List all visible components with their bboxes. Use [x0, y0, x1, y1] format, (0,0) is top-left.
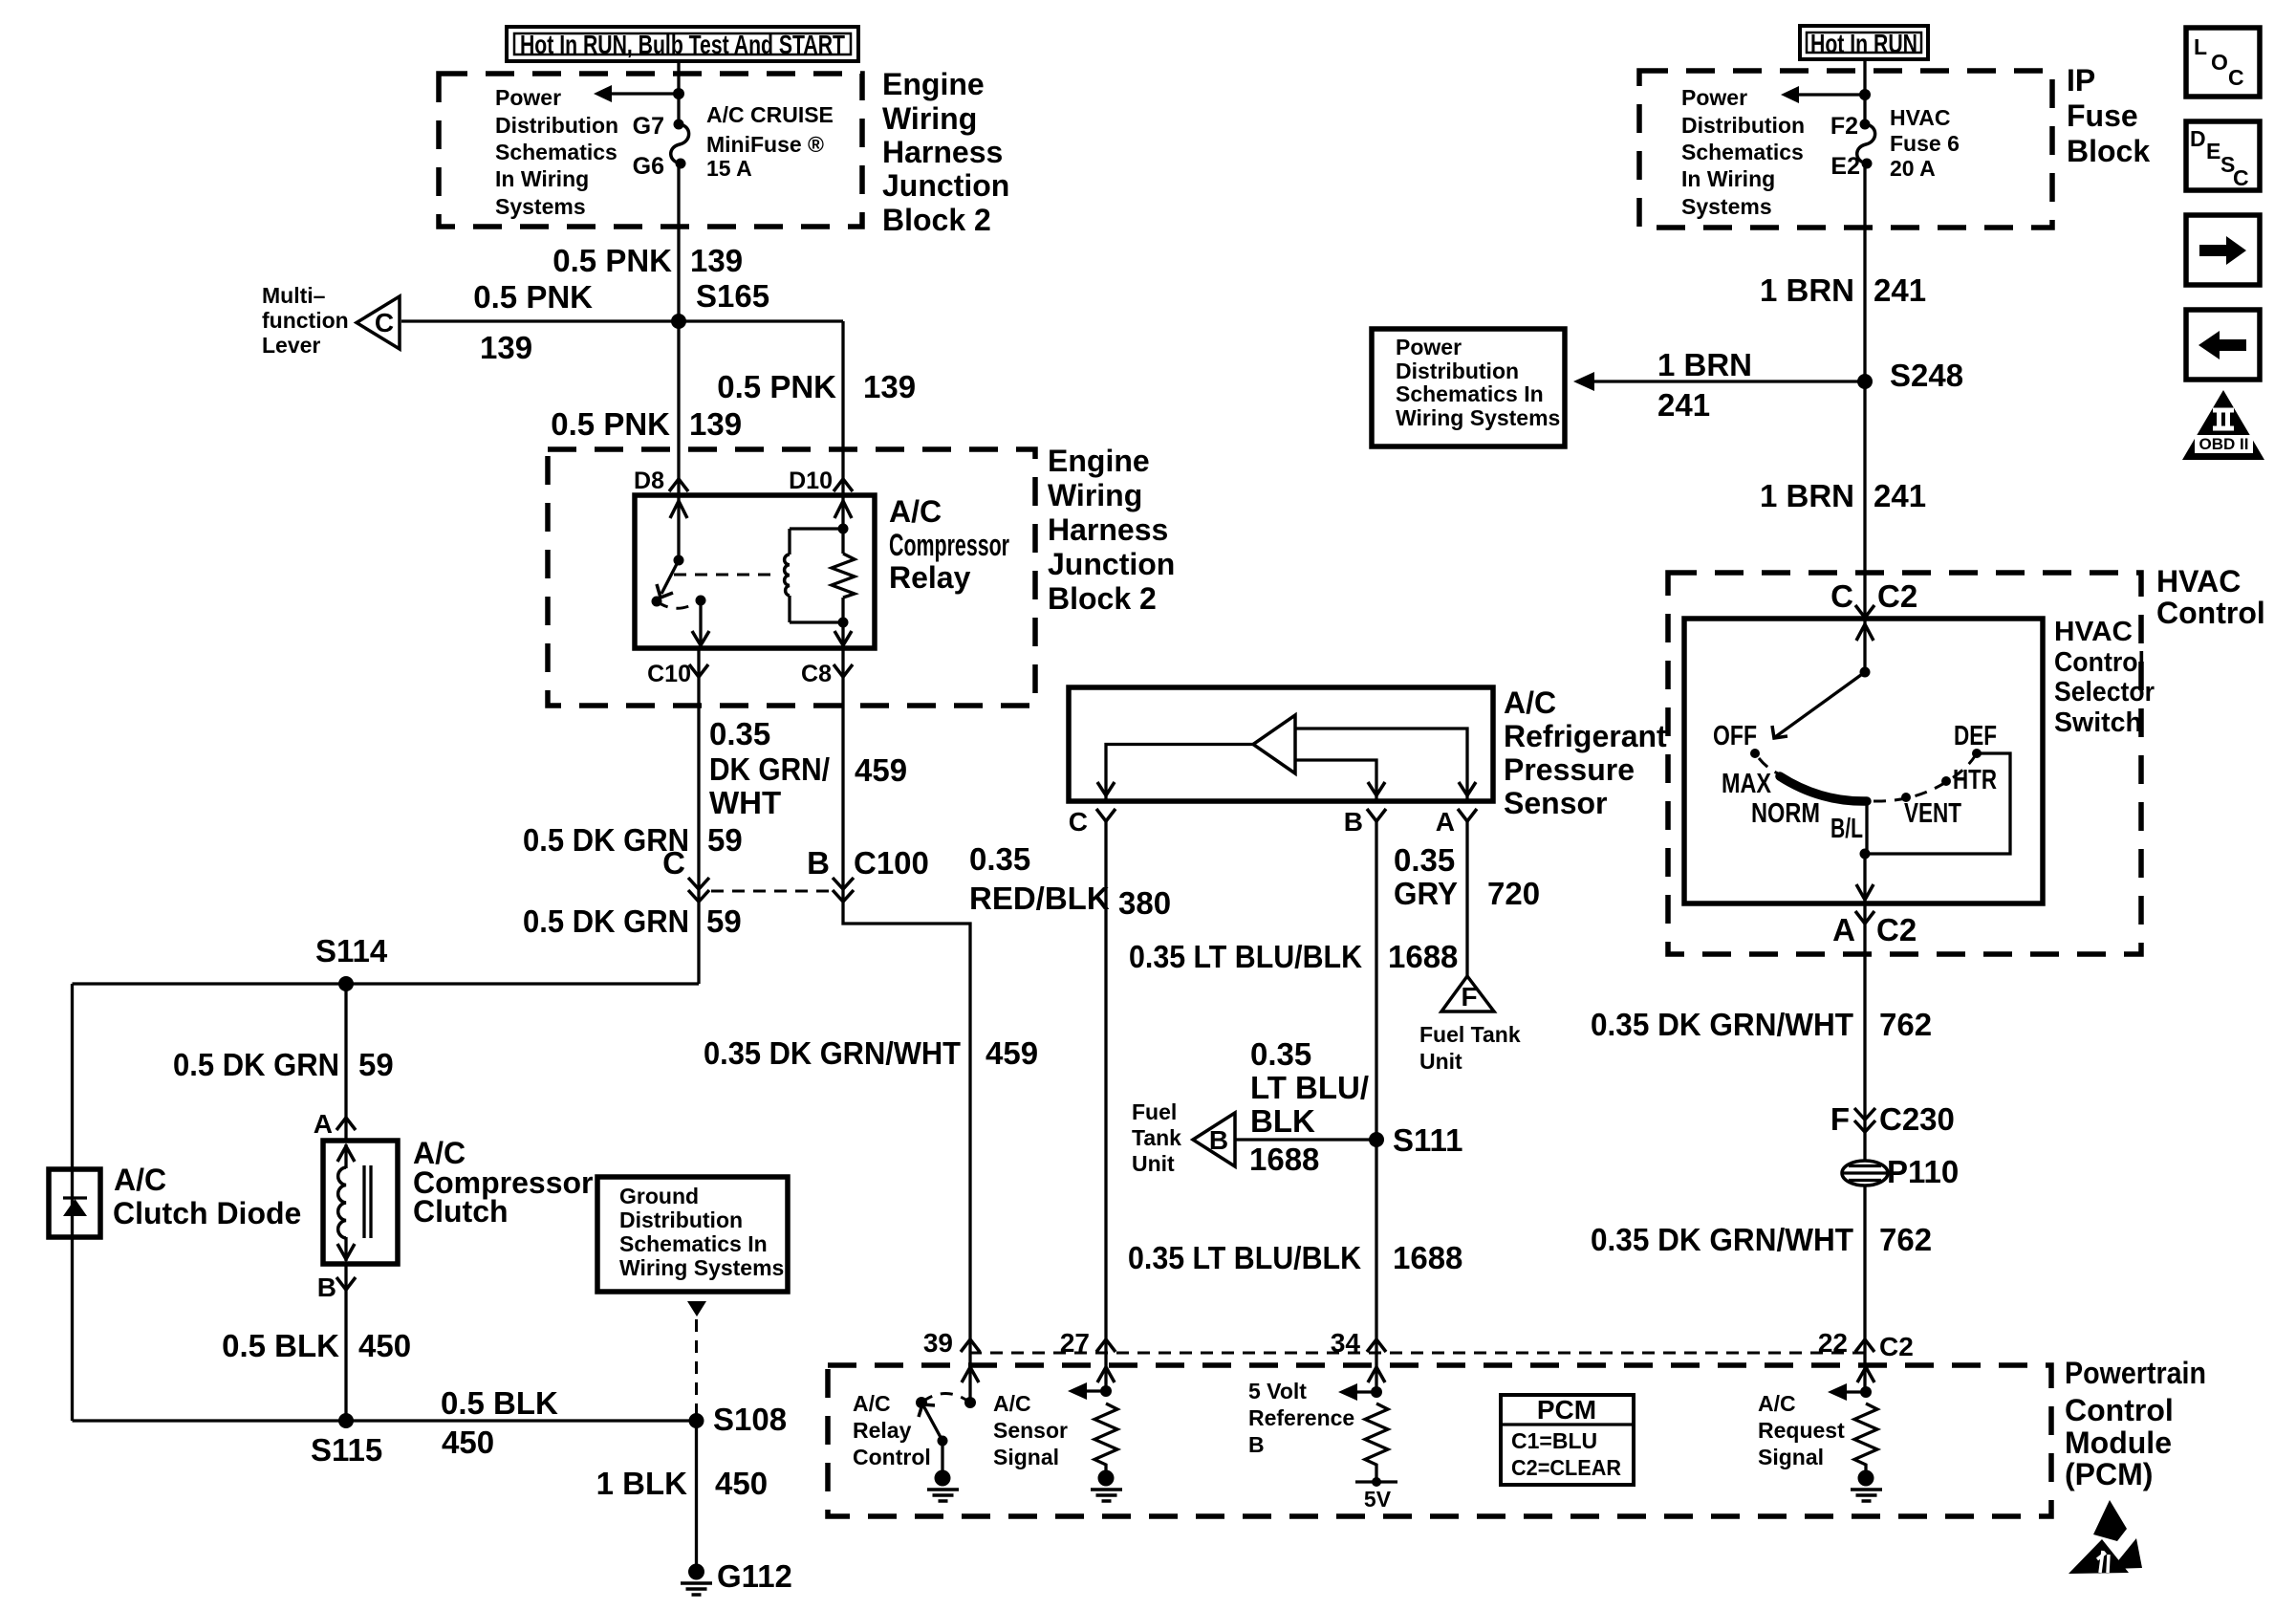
svg-text:In Wiring: In Wiring [495, 166, 589, 191]
svg-text:A/C: A/C [853, 1391, 891, 1416]
svg-text:HVAC: HVAC [2156, 564, 2241, 598]
svg-text:Block: Block [2067, 134, 2150, 168]
svg-text:1688: 1688 [1249, 1142, 1319, 1177]
svg-text:Distribution: Distribution [619, 1207, 743, 1232]
svg-text:Schematics In: Schematics In [1396, 381, 1544, 406]
svg-text:59: 59 [358, 1047, 394, 1082]
svg-text:Systems: Systems [1681, 194, 1772, 219]
svg-text:B: B [807, 845, 830, 881]
5 Volt Reference branch [1338, 1367, 1397, 1512]
svg-text:E2: E2 [1830, 153, 1860, 180]
svg-text:A/C: A/C [993, 1391, 1031, 1416]
node S111 [1369, 1132, 1384, 1147]
svg-text:Systems: Systems [495, 194, 586, 219]
svg-text:A/C: A/C [1758, 1391, 1796, 1416]
svg-text:F2: F2 [1830, 113, 1858, 140]
connector F: Fuel Tank Unit [1441, 976, 1494, 1012]
svg-text:1 BRN: 1 BRN [1760, 478, 1854, 513]
svg-text:762: 762 [1879, 1222, 1932, 1257]
svg-text:C2=CLEAR: C2=CLEAR [1511, 1455, 1621, 1480]
svg-text:Hot In RUN, Bulb Test And STAR: Hot In RUN, Bulb Test And START [520, 30, 845, 59]
svg-text:F: F [1830, 1101, 1850, 1137]
svg-text:Hot In RUN: Hot In RUN [1810, 29, 1917, 58]
svg-text:20 A: 20 A [1890, 156, 1936, 181]
connector B: Fuel Tank Unit [1193, 1113, 1235, 1166]
svg-text:450: 450 [715, 1466, 768, 1501]
svg-text:0.35: 0.35 [709, 716, 770, 751]
dashed box: Engine Wiring Harness Junction Block 2 (relay) [548, 449, 1035, 706]
wire: feed from Hot In RUN [1863, 59, 1866, 122]
svg-text:B: B [1248, 1432, 1265, 1457]
svg-text:Multi–: Multi– [262, 283, 326, 308]
svg-text:139: 139 [689, 406, 742, 442]
svg-text:E: E [2206, 139, 2220, 163]
svg-text:0.5 DK GRN: 0.5 DK GRN [523, 903, 689, 939]
svg-text:Wiring: Wiring [1048, 478, 1142, 512]
connector C100 dashed mate line [711, 890, 831, 893]
svg-text:S114: S114 [315, 933, 388, 968]
svg-text:Selector: Selector [2054, 677, 2155, 707]
svg-text:C230: C230 [1879, 1101, 1955, 1137]
Ground Distribution box [597, 1177, 788, 1292]
selector dashed arcs [1759, 758, 1778, 773]
svg-text:PCM: PCM [1537, 1395, 1596, 1425]
svg-text:HVAC: HVAC [1890, 105, 1950, 130]
svg-text:Sensor: Sensor [1504, 786, 1607, 820]
node S115 [338, 1413, 354, 1428]
svg-text:D10: D10 [789, 468, 833, 494]
svg-text:Distribution: Distribution [495, 113, 618, 138]
icon: arrow right [2186, 215, 2260, 285]
icon: ESD triangle [2069, 1500, 2142, 1574]
svg-text:Lever: Lever [262, 333, 320, 358]
svg-text:L: L [2194, 34, 2207, 59]
svg-text:241: 241 [1874, 478, 1926, 513]
A/C Compressor Clutch box [323, 1141, 398, 1264]
svg-text:0.35 DK GRN/WHT: 0.35 DK GRN/WHT [1591, 1222, 1853, 1257]
svg-text:0.35: 0.35 [1250, 1036, 1311, 1072]
A/C Clutch Diode box [49, 1169, 100, 1237]
connector C230 pin F [1830, 1101, 1955, 1137]
svg-text:Unit: Unit [1132, 1151, 1175, 1176]
svg-text:Fuse: Fuse [2067, 98, 2138, 133]
svg-text:Control: Control [2054, 647, 2145, 678]
svg-text:IP: IP [2067, 63, 2095, 98]
svg-text:G6: G6 [633, 153, 664, 180]
A/C Request Signal branch [1828, 1367, 1882, 1501]
svg-text:C2: C2 [1877, 578, 1917, 614]
svg-text:S165: S165 [696, 278, 769, 314]
svg-text:0.5 DK GRN: 0.5 DK GRN [173, 1047, 339, 1082]
svg-text:Harness: Harness [1048, 512, 1168, 547]
wire: diode branch down [71, 984, 74, 1421]
icon: arrow left [2186, 310, 2260, 380]
svg-text:Schematics: Schematics [495, 140, 617, 164]
node S114 [338, 976, 354, 991]
node S108 [689, 1413, 704, 1428]
svg-text:NORM: NORM [1751, 798, 1820, 829]
svg-text:Distribution: Distribution [1396, 359, 1519, 383]
svg-text:G7: G7 [633, 113, 664, 140]
svg-text:Clutch: Clutch [413, 1194, 509, 1229]
svg-text:59: 59 [707, 822, 743, 858]
wire: bottom ground run S115 to S108 [73, 1419, 697, 1422]
svg-text:Control: Control [853, 1445, 931, 1469]
svg-text:C: C [2228, 65, 2244, 90]
wire: sensor B to pin 34 [1375, 821, 1377, 1392]
note: Power Distribution Schematics In Wiring Systems (IP) [1681, 85, 1805, 219]
svg-text:Power: Power [1681, 85, 1747, 110]
svg-text:OBD II: OBD II [2199, 435, 2249, 453]
HVAC Control Selector Switch box [1684, 619, 2043, 903]
svg-text:Relay: Relay [853, 1418, 912, 1443]
svg-text:DK GRN/: DK GRN/ [709, 751, 830, 787]
svg-text:Request: Request [1758, 1418, 1845, 1443]
svg-text:Engine: Engine [1048, 444, 1150, 478]
connector C100 pin B [807, 845, 929, 902]
svg-text:C: C [662, 845, 685, 881]
svg-text:380: 380 [1118, 885, 1171, 921]
svg-text:27: 27 [1060, 1328, 1090, 1358]
svg-text:Unit: Unit [1419, 1049, 1462, 1074]
svg-text:P110: P110 [1887, 1154, 1959, 1189]
svg-text:139: 139 [863, 369, 916, 404]
svg-text:Clutch Diode: Clutch Diode [113, 1196, 301, 1230]
svg-text:720: 720 [1487, 876, 1540, 911]
svg-text:In Wiring: In Wiring [1681, 166, 1775, 191]
fuse: HVAC Fuse 6 20 A [1857, 120, 1875, 169]
label box: Hot In RUN, Bulb Test And START [507, 27, 858, 61]
wire: 1 BRN 241 down to HVAC control [1863, 163, 1866, 619]
svg-text:A: A [1436, 807, 1455, 837]
svg-text:C1=BLU: C1=BLU [1511, 1428, 1597, 1453]
wire: S108 to G112 [695, 1421, 698, 1564]
svg-text:450: 450 [442, 1425, 494, 1460]
svg-text:OFF: OFF [1713, 721, 1757, 751]
grommet P110 [1841, 1154, 1959, 1189]
label: A/C CRUISE MiniFuse 15 A [706, 102, 834, 181]
svg-text:VENT: VENT [1904, 798, 1961, 829]
relay internal dashed link [674, 574, 772, 577]
svg-text:Powertrain: Powertrain [2065, 1356, 2206, 1390]
svg-text:Control: Control [2065, 1393, 2174, 1427]
dashed box: HVAC Control [1668, 573, 2141, 954]
svg-text:Pressure: Pressure [1504, 752, 1635, 787]
svg-text:Engine: Engine [882, 67, 985, 101]
svg-text:5V: 5V [1364, 1487, 1392, 1512]
svg-text:59: 59 [706, 903, 742, 939]
connector C: Multi-function Lever [357, 296, 400, 349]
svg-text:139: 139 [480, 330, 532, 365]
svg-text:LT BLU/: LT BLU/ [1250, 1070, 1369, 1105]
svg-text:0.5 PNK: 0.5 PNK [717, 369, 836, 404]
arrow to power distribution (IP) [1781, 86, 1871, 103]
svg-text:0.5 BLK: 0.5 BLK [222, 1328, 339, 1363]
label box: Hot In RUN [1800, 26, 1928, 59]
svg-text:F: F [1461, 982, 1477, 1012]
svg-text:Module: Module [2065, 1425, 2172, 1460]
note: Power Distribution Schematics In Wiring Systems [495, 85, 618, 219]
svg-text:Schematics In: Schematics In [619, 1231, 768, 1256]
svg-text:0.35 LT BLU/BLK: 0.35 LT BLU/BLK [1128, 1240, 1361, 1275]
relay box: A/C Compressor Relay [635, 495, 875, 648]
dashed box: IP Fuse Block [1639, 71, 2052, 228]
svg-text:Wiring: Wiring [882, 101, 977, 136]
arrow: S248 to power distribution [1573, 372, 1865, 391]
svg-text:1 BRN: 1 BRN [1657, 347, 1752, 382]
dashed box: Powertrain Control Module (PCM) [828, 1365, 2051, 1516]
wire: C8 to C100 to pin 39 [843, 648, 970, 1403]
svg-text:HTR: HTR [1953, 765, 1997, 795]
ground feed triangle [687, 1301, 706, 1316]
svg-text:C: C [1069, 807, 1088, 837]
svg-text:0.5 PNK: 0.5 PNK [551, 406, 670, 442]
svg-text:Tank: Tank [1132, 1125, 1181, 1150]
svg-text:0.35: 0.35 [1394, 842, 1455, 878]
svg-text:A: A [314, 1109, 333, 1139]
svg-text:Fuel Tank: Fuel Tank [1419, 1022, 1521, 1047]
svg-text:Wiring Systems: Wiring Systems [619, 1255, 784, 1280]
svg-text:A/C: A/C [889, 494, 942, 529]
svg-text:Junction: Junction [882, 168, 1009, 203]
node S165 [671, 314, 686, 329]
svg-text:459: 459 [855, 752, 907, 788]
svg-text:1 BRN: 1 BRN [1760, 272, 1854, 308]
dashed box: Engine Wiring Harness Junction Block 2 (fuse block) [439, 74, 862, 227]
svg-text:Distribution: Distribution [1681, 113, 1805, 138]
svg-text:C2: C2 [1876, 912, 1917, 947]
svg-text:0.35 LT BLU/BLK: 0.35 LT BLU/BLK [1129, 939, 1362, 974]
svg-text:Block 2: Block 2 [1048, 581, 1157, 616]
svg-text:762: 762 [1879, 1007, 1932, 1042]
svg-text:D8: D8 [634, 468, 664, 494]
svg-text:Switch: Switch [2054, 707, 2142, 738]
wire: 0.5 PNK 139 fuse to S165 and down to relay [677, 163, 680, 560]
svg-text:S108: S108 [713, 1402, 787, 1437]
svg-text:Compressor: Compressor [889, 528, 1009, 562]
svg-text:C8: C8 [801, 661, 832, 687]
PCM connector dashed line [969, 1352, 1865, 1355]
wire: sensor C to pin 27 [1104, 821, 1107, 1391]
Power Distribution box (S248) [1372, 329, 1565, 446]
svg-text:1688: 1688 [1388, 939, 1458, 974]
svg-text:0.35 DK GRN/WHT: 0.35 DK GRN/WHT [704, 1035, 961, 1071]
wire: sensor A to fuel tank unit [1465, 821, 1468, 976]
svg-text:S248: S248 [1890, 358, 1963, 393]
pin A C2 (HVAC) [1855, 911, 1874, 924]
svg-text:459: 459 [986, 1035, 1038, 1071]
svg-text:D: D [2190, 126, 2206, 151]
svg-text:0.5 BLK: 0.5 BLK [441, 1385, 558, 1421]
A/C Relay Control switch [916, 1367, 979, 1501]
svg-text:A: A [1832, 912, 1855, 947]
svg-text:Schematics: Schematics [1681, 140, 1804, 164]
svg-text:Signal: Signal [993, 1445, 1059, 1469]
fuse F1: A/C CRUISE MiniFuse 15 A [671, 120, 689, 169]
svg-text:22: 22 [1818, 1328, 1848, 1358]
svg-text:A/C: A/C [114, 1163, 166, 1197]
selector switch arm [1772, 619, 1874, 738]
svg-text:241: 241 [1657, 387, 1710, 423]
svg-text:RED/BLK: RED/BLK [969, 881, 1110, 916]
node S248 [1857, 374, 1873, 389]
svg-text:function: function [262, 308, 349, 333]
svg-text:Control: Control [2156, 596, 2265, 630]
svg-text:(PCM): (PCM) [2065, 1457, 2153, 1491]
svg-text:139: 139 [690, 243, 743, 278]
svg-text:WHT: WHT [709, 785, 781, 820]
wire: S165 branches [401, 321, 843, 495]
svg-text:Fuse 6: Fuse 6 [1890, 131, 1960, 156]
svg-text:34: 34 [1331, 1328, 1361, 1358]
connector C100 pin C [662, 845, 709, 902]
arrow to power distribution [594, 85, 684, 102]
relay resistor [832, 495, 855, 648]
svg-text:Junction: Junction [1048, 547, 1175, 581]
wire: clutch branch down [344, 984, 347, 1421]
icon: DESC [2186, 121, 2260, 190]
selector contact arc [1780, 776, 1867, 801]
svg-text:241: 241 [1874, 272, 1926, 308]
svg-text:B: B [317, 1273, 336, 1302]
svg-text:Reference: Reference [1248, 1405, 1354, 1430]
svg-text:0.35 DK GRN/WHT: 0.35 DK GRN/WHT [1591, 1007, 1853, 1042]
svg-text:39: 39 [923, 1328, 953, 1358]
relay coil [785, 524, 849, 628]
svg-text:GRY: GRY [1394, 876, 1458, 911]
svg-text:450: 450 [358, 1328, 411, 1363]
icon: OBD II [2182, 390, 2264, 460]
svg-text:MAX: MAX [1722, 769, 1772, 799]
svg-text:C100: C100 [854, 845, 929, 881]
svg-text:Wiring Systems: Wiring Systems [1396, 405, 1560, 430]
svg-text:A/C: A/C [1504, 685, 1556, 720]
svg-text:Block 2: Block 2 [882, 203, 991, 237]
svg-text:S115: S115 [311, 1432, 382, 1468]
icon: LOC [2186, 28, 2260, 97]
svg-text:0.35: 0.35 [969, 841, 1030, 877]
svg-text:Power: Power [495, 85, 561, 110]
A/C Refrigerant Pressure Sensor box [1069, 687, 1493, 801]
svg-text:S111: S111 [1393, 1122, 1462, 1158]
PCM legend box [1501, 1395, 1634, 1485]
svg-text:Signal: Signal [1758, 1445, 1824, 1469]
svg-text:O: O [2211, 50, 2228, 75]
svg-text:B/L: B/L [1830, 814, 1863, 844]
svg-text:G112: G112 [717, 1558, 792, 1594]
svg-text:B: B [1209, 1125, 1228, 1155]
svg-text:Relay: Relay [889, 560, 971, 595]
svg-text:Power: Power [1396, 335, 1462, 359]
svg-text:Sensor: Sensor [993, 1418, 1068, 1443]
svg-text:DEF: DEF [1954, 721, 1997, 751]
svg-text:C: C [1830, 578, 1853, 614]
svg-text:C2: C2 [1879, 1332, 1914, 1361]
svg-text:C: C [375, 308, 394, 337]
wire: S114 horizontal [73, 982, 700, 985]
svg-text:1 BLK: 1 BLK [596, 1466, 688, 1501]
wire: feed from Hot In RUN into fuse [677, 61, 680, 122]
svg-text:Refrigerant: Refrigerant [1504, 719, 1667, 753]
svg-text:C10: C10 [647, 661, 691, 687]
svg-text:HVAC: HVAC [2054, 617, 2133, 647]
svg-text:Fuel: Fuel [1132, 1099, 1177, 1124]
svg-text:C: C [2233, 165, 2249, 190]
ground G112 [681, 1558, 792, 1595]
svg-text:MiniFuse ®: MiniFuse ® [706, 132, 824, 157]
svg-text:5 Volt: 5 Volt [1248, 1379, 1307, 1403]
svg-text:BLK: BLK [1250, 1103, 1315, 1139]
dashed wire to S108 [695, 1319, 698, 1419]
svg-text:1688: 1688 [1393, 1240, 1462, 1275]
wire: HVAC A to pin 22 [1863, 903, 1866, 1392]
wire: S111 tap [1235, 1138, 1376, 1141]
svg-text:0.5 PNK: 0.5 PNK [473, 279, 593, 315]
svg-text:B: B [1344, 807, 1363, 837]
A/C Sensor Signal branch [1068, 1367, 1122, 1501]
wire: C10 to C100 and S114 [697, 648, 700, 984]
svg-text:0.5 PNK: 0.5 PNK [552, 243, 672, 278]
svg-text:Ground: Ground [619, 1184, 699, 1208]
label: HVAC Fuse 6 20 A [1890, 105, 1960, 181]
selector output [1856, 753, 2010, 903]
svg-text:Harness: Harness [882, 135, 1003, 169]
svg-text:A/C CRUISE: A/C CRUISE [706, 102, 834, 127]
svg-text:15 A: 15 A [706, 156, 752, 181]
relay switch arm [652, 501, 710, 648]
